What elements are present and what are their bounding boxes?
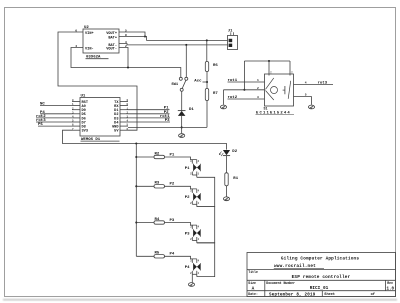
svg-text:VOUT-: VOUT- [106,48,117,52]
svg-text:P3: P3 [170,219,175,223]
svg-text:VIN+: VIN+ [85,32,94,36]
svg-text:R3: R3 [155,182,160,186]
svg-text:rot1: rot1 [228,78,238,83]
svg-text:ESP remote controller: ESP remote controller [292,275,351,280]
svg-text:Rev: Rev [387,281,393,285]
svg-text:3V3: 3V3 [82,130,88,134]
svg-text:R4: R4 [155,218,160,222]
svg-text:P3: P3 [165,119,170,123]
svg-text:Acc: Acc [194,79,202,83]
svg-text:2: 2 [125,45,127,48]
svg-text:Size: Size [248,281,256,285]
svg-text:VIN-: VIN- [85,48,94,52]
svg-text:R5: R5 [155,252,160,256]
svg-text:EC11E15244: EC11E15244 [256,111,291,115]
svg-text:2: 2 [257,87,259,90]
svg-text:VOUT+: VOUT+ [106,32,117,36]
svg-text:P5: P5 [38,123,43,127]
svg-text:P2: P2 [170,183,175,187]
svg-text:D2: D2 [232,150,237,154]
svg-text:of: of [371,292,375,297]
svg-text:D1: D1 [189,108,194,112]
svg-text:1.0: 1.0 [387,287,395,291]
svg-text:U1: U1 [81,95,86,99]
svg-text:rot2: rot2 [228,95,238,100]
svg-text:www.rocrail.net: www.rocrail.net [274,264,316,269]
svg-text:RICI_01: RICI_01 [310,286,329,291]
svg-text:U2: U2 [84,26,89,30]
svg-text:Sheet: Sheet [324,292,335,297]
svg-text:4: 4 [305,82,307,85]
svg-text:R7: R7 [213,92,218,96]
svg-text:rot3: rot3 [318,81,328,86]
svg-text:September 8, 2019: September 8, 2019 [269,292,316,297]
svg-text:P3: P3 [185,232,190,236]
svg-text:R6: R6 [213,64,218,68]
svg-text:Date:: Date: [248,292,258,296]
svg-text:R1: R1 [233,177,238,181]
svg-text:5: 5 [305,94,307,97]
svg-text:P1: P1 [170,153,175,157]
svg-text:A: A [252,287,255,292]
svg-text:5: 5 [125,29,127,32]
svg-text:Giling Computer Applications: Giling Computer Applications [281,256,359,261]
svg-text:1: 1 [257,79,259,82]
svg-text:Document Number: Document Number [266,281,295,285]
svg-text:Title: Title [248,270,258,274]
svg-text:P4: P4 [170,253,175,257]
svg-text:8: 8 [125,34,127,37]
svg-text:P2: P2 [185,196,190,200]
svg-text:4: 4 [75,45,77,48]
svg-text:P1: P1 [185,167,190,171]
svg-text:SW1: SW1 [171,83,179,87]
svg-text:P4: P4 [185,266,190,270]
svg-text:NC: NC [40,103,45,107]
svg-text:03962A: 03962A [86,56,101,60]
svg-text:WEMOS D1: WEMOS D1 [81,138,101,142]
svg-text:3: 3 [257,96,259,99]
svg-text:J1: J1 [228,30,233,34]
svg-text:3: 3 [125,41,127,44]
svg-text:BAT+: BAT+ [108,37,117,41]
svg-text:6: 6 [75,29,77,32]
svg-text:R2: R2 [155,152,160,156]
